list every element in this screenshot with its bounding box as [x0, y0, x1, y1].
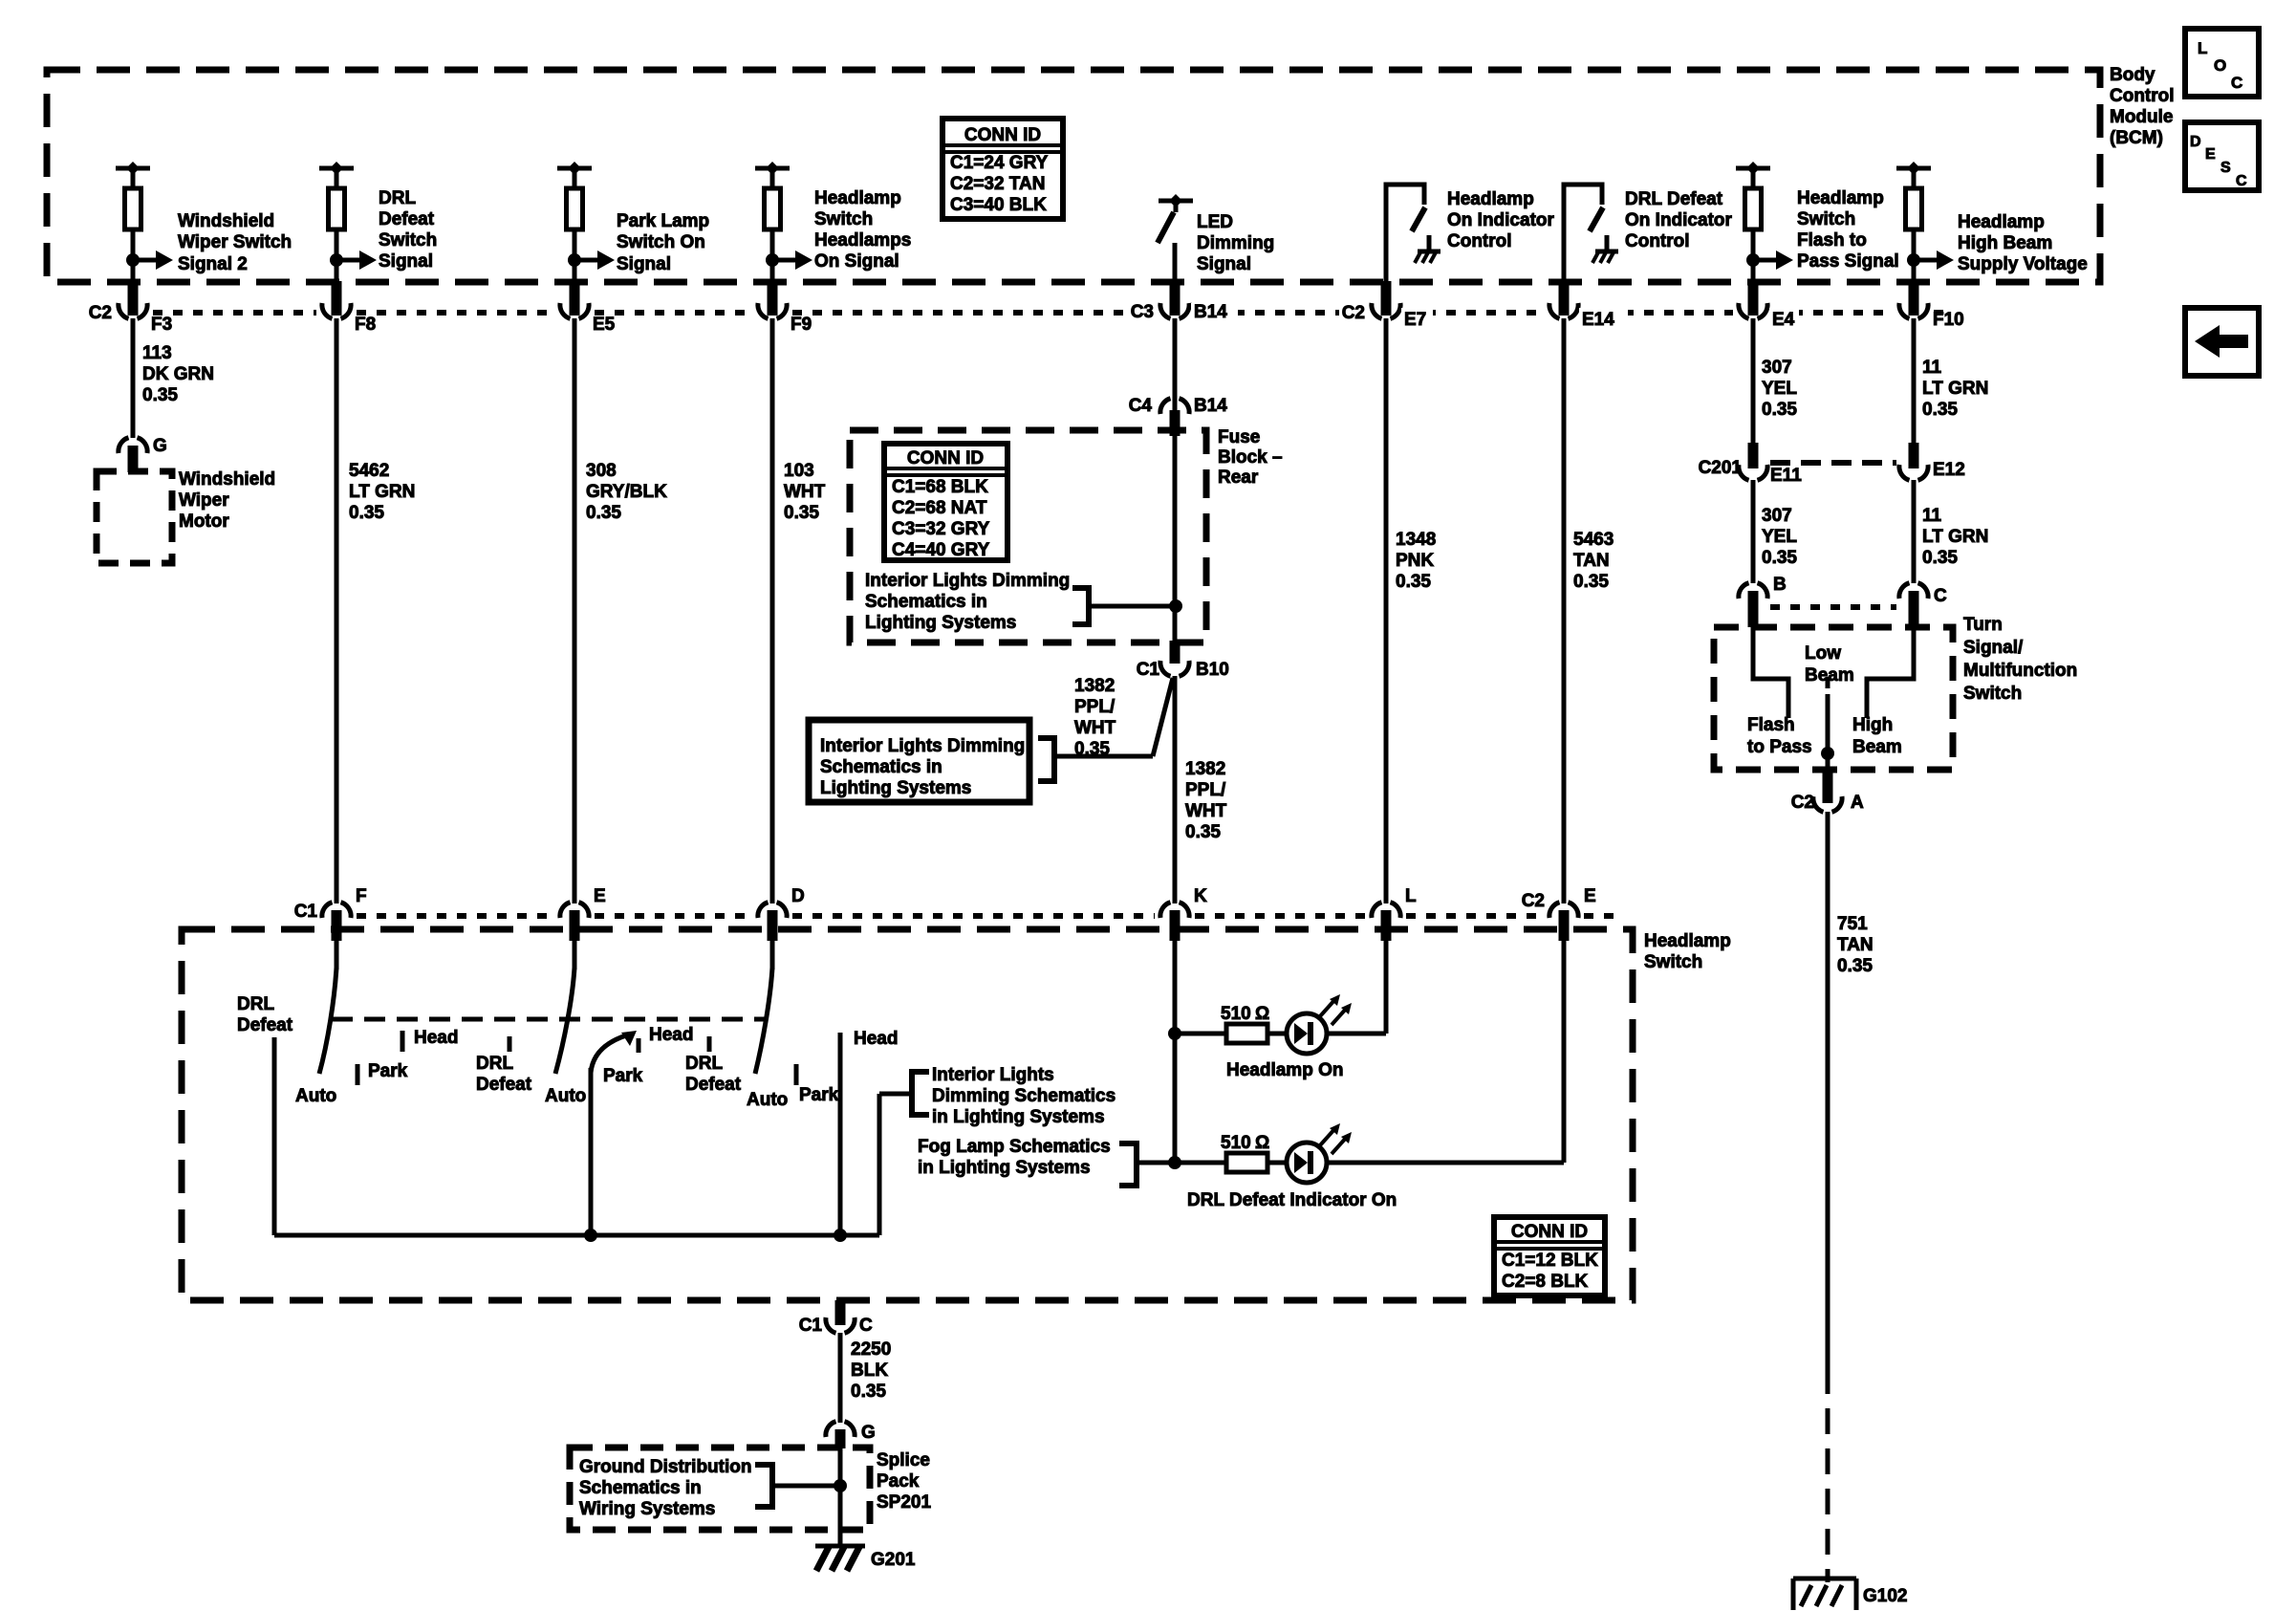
svg-text:TAN: TAN — [1837, 935, 1874, 955]
svg-text:Auto: Auto — [295, 1086, 336, 1106]
svg-text:F3: F3 — [151, 315, 172, 335]
connector pin E4 — [1739, 281, 1799, 330]
svg-text:E12: E12 — [1933, 460, 1965, 480]
low beam wiper — [1805, 643, 1854, 783]
resistor pull-up Park Lamp Switch On Signal — [557, 162, 592, 282]
wire 5463 TAN 0.35 — [1564, 318, 1614, 903]
svg-text:0.35: 0.35 — [142, 385, 178, 405]
Body Control Module (BCM) box — [47, 65, 2175, 282]
DRL defeat on indicator control driver — [1564, 185, 1733, 316]
connector pin G windshield wiper motor — [119, 436, 167, 472]
connector C3 pin B14 — [1128, 281, 1238, 322]
svg-text:E: E — [2205, 146, 2216, 163]
headlamp on indicator control driver — [1386, 185, 1555, 316]
wire 11 LT GRN 0.35 (lower) — [1914, 480, 1988, 583]
svg-text:Head: Head — [414, 1028, 458, 1048]
svg-text:E5: E5 — [593, 315, 616, 335]
svg-text:0.35: 0.35 — [1762, 548, 1797, 568]
svg-text:High Beam: High Beam — [1958, 233, 2052, 253]
signal arrow Park Lamp Switch On Signal — [568, 211, 709, 274]
wire 751 TAN 0.35 — [1828, 812, 1874, 1368]
svg-text:Switch: Switch — [379, 230, 437, 250]
svg-text:C201: C201 — [1699, 458, 1743, 478]
C201 connector dashed line — [1770, 460, 1896, 466]
svg-text:5462: 5462 — [349, 461, 389, 481]
resistor pull-up Headlamp High Beam Supply Voltage — [1896, 162, 1931, 282]
svg-text:Park: Park — [368, 1061, 408, 1081]
svg-text:Low: Low — [1805, 643, 1841, 664]
connector C2 pin F3 — [89, 281, 172, 335]
back-arrow navigation box — [2185, 308, 2259, 376]
DRL defeat position contact 3 — [685, 1036, 742, 1095]
svg-text:Multifunction: Multifunction — [1963, 661, 2077, 681]
svg-text:Auto: Auto — [545, 1086, 586, 1106]
svg-text:307: 307 — [1762, 358, 1792, 378]
svg-text:Wiper Switch: Wiper Switch — [178, 232, 292, 252]
switch blade 3 (auto position) — [747, 941, 788, 1110]
svg-text:LT GRN: LT GRN — [1922, 527, 1988, 547]
svg-text:CONN ID: CONN ID — [907, 448, 984, 468]
connector pin E5 — [560, 281, 616, 335]
svg-text:F9: F9 — [791, 315, 812, 335]
svg-text:0.35: 0.35 — [1396, 572, 1431, 592]
svg-text:Switch: Switch — [1797, 209, 1855, 229]
park position contact 1 — [357, 1061, 408, 1085]
ground distribution reference — [579, 1457, 840, 1519]
svg-text:G201: G201 — [871, 1550, 916, 1570]
wire 113 DK GRN 0.35 — [133, 318, 214, 438]
svg-text:Body: Body — [2110, 65, 2155, 85]
svg-text:Interior Lights Dimming: Interior Lights Dimming — [820, 736, 1025, 756]
svg-text:0.35: 0.35 — [851, 1382, 886, 1402]
svg-text:0.35: 0.35 — [1573, 572, 1609, 592]
connector C2 pin A — [1791, 771, 1864, 813]
svg-text:YEL: YEL — [1762, 379, 1797, 399]
svg-text:A: A — [1851, 793, 1864, 813]
DESC reference box — [2185, 122, 2259, 190]
svg-text:C1: C1 — [1137, 660, 1160, 680]
svg-text:Block –: Block – — [1218, 447, 1283, 468]
svg-text:0.35: 0.35 — [586, 503, 621, 523]
switch blade 1 (auto position) — [295, 941, 336, 1106]
svg-text:Defeat: Defeat — [685, 1075, 742, 1095]
svg-text:GRY/BLK: GRY/BLK — [586, 482, 667, 502]
svg-text:B10: B10 — [1196, 660, 1229, 680]
svg-text:Defeat: Defeat — [379, 209, 435, 229]
svg-text:Signal: Signal — [379, 251, 433, 272]
wire 103 WHT 0.35 — [772, 318, 826, 903]
interior lights dimming reference (headlamp switch) — [912, 1065, 1116, 1127]
svg-text:G: G — [153, 436, 167, 456]
svg-text:Wiper: Wiper — [179, 490, 229, 511]
svg-text:DRL Defeat: DRL Defeat — [1625, 189, 1723, 209]
svg-text:(BCM): (BCM) — [2110, 128, 2163, 148]
svg-text:C2=8 BLK: C2=8 BLK — [1502, 1272, 1589, 1292]
svg-text:C2: C2 — [1791, 793, 1814, 813]
connector C2 pin E headlamp switch — [1522, 886, 1596, 941]
svg-text:Headlamp: Headlamp — [814, 188, 901, 208]
svg-text:On Indicator: On Indicator — [1625, 210, 1733, 230]
svg-text:PNK: PNK — [1396, 551, 1434, 571]
connector pin E headlamp switch — [560, 886, 606, 941]
svg-text:Splice: Splice — [877, 1450, 930, 1470]
svg-text:C3=32 GRY: C3=32 GRY — [892, 519, 990, 539]
CONN ID table (BCM connectors) — [942, 119, 1063, 219]
wire K into indicator branches — [1168, 941, 1181, 1169]
svg-text:C: C — [2231, 74, 2242, 92]
svg-text:O: O — [2214, 56, 2226, 75]
wire 1382 PPL/WHT 0.35 to headlamp switch — [1175, 676, 1227, 903]
connector pin E14 — [1549, 281, 1628, 330]
resistor 510 ohm (DRL defeat indicator) — [1137, 1133, 1269, 1172]
svg-text:0.35: 0.35 — [1922, 400, 1958, 420]
svg-text:WHT: WHT — [1185, 801, 1227, 821]
connector pin G splice pack — [826, 1422, 876, 1448]
wire fuse block internal — [1089, 436, 1182, 642]
wire B14 to fuse block — [1173, 318, 1178, 411]
svg-text:C1=68 BLK: C1=68 BLK — [892, 477, 988, 497]
wire 11 LT GRN 0.35 (upper) — [1914, 318, 1988, 443]
wire to interior lights dimming reference — [879, 1094, 912, 1235]
connector pin F8 — [322, 281, 376, 335]
svg-text:E14: E14 — [1582, 310, 1614, 330]
DRL defeat position contact 2 — [476, 1036, 532, 1095]
wire LED dimming signal — [1173, 243, 1178, 282]
svg-text:308: 308 — [586, 461, 617, 481]
svg-text:C2=32 TAN: C2=32 TAN — [950, 174, 1045, 194]
svg-text:Schematics in: Schematics in — [579, 1478, 702, 1498]
svg-text:C: C — [859, 1316, 873, 1336]
svg-text:510: 510 — [1221, 1133, 1251, 1153]
wire through splice pack — [834, 1448, 847, 1546]
svg-text:Control: Control — [2110, 86, 2175, 106]
wire 2250 BLK 0.35 — [840, 1333, 891, 1423]
headlamp switch box — [182, 929, 1731, 1300]
svg-text:DRL: DRL — [237, 994, 274, 1014]
svg-text:On Indicator: On Indicator — [1447, 210, 1555, 230]
svg-text:11: 11 — [1922, 358, 1942, 378]
connector pin F9 — [758, 281, 812, 335]
svg-text:B14: B14 — [1194, 396, 1227, 416]
wire to G102 (off-page dashed) — [1826, 1368, 1830, 1582]
park head selector arrow switch 2 — [591, 1025, 693, 1086]
svg-text:DRL: DRL — [685, 1054, 723, 1074]
svg-text:Ω: Ω — [1255, 1004, 1269, 1024]
svg-text:K: K — [1194, 886, 1207, 906]
svg-text:Interior Lights: Interior Lights — [932, 1065, 1054, 1085]
resistor 510 ohm (headlamp on) — [1175, 1004, 1269, 1043]
svg-text:C3=40 BLK: C3=40 BLK — [950, 195, 1047, 215]
svg-text:Switch: Switch — [1644, 952, 1702, 972]
LED dimming signal switch driver — [1158, 194, 1274, 274]
svg-text:307: 307 — [1762, 506, 1792, 526]
splice pack SP201 box — [570, 1448, 931, 1530]
svg-text:1382: 1382 — [1074, 676, 1115, 696]
svg-text:Switch On: Switch On — [617, 232, 705, 252]
signal arrow Headlamp High Beam Supply Voltage — [1907, 212, 2088, 274]
svg-text:510: 510 — [1221, 1004, 1251, 1024]
svg-text:E: E — [594, 886, 606, 906]
svg-text:E11: E11 — [1770, 466, 1802, 486]
svg-text:C2: C2 — [89, 303, 112, 323]
svg-text:Beam: Beam — [1852, 737, 1902, 757]
connector pin L headlamp switch — [1372, 886, 1417, 941]
signal arrow Headlamp Switch Headlamps On Signal — [766, 188, 911, 272]
svg-text:WHT: WHT — [1074, 718, 1116, 738]
svg-text:PPL/: PPL/ — [1074, 697, 1116, 717]
turn signal / multifunction switch box — [1714, 615, 2077, 770]
svg-text:Head: Head — [854, 1029, 898, 1049]
connector pin D headlamp switch — [758, 886, 805, 941]
svg-text:C4: C4 — [1129, 396, 1153, 416]
signal arrow Windshield Wiper Switch Signal 2 — [126, 211, 292, 274]
svg-text:Lighting Systems: Lighting Systems — [865, 613, 1016, 633]
svg-text:1348: 1348 — [1396, 530, 1436, 550]
flash to pass contact — [1747, 627, 1812, 757]
svg-text:0.35: 0.35 — [1762, 400, 1797, 420]
wire 308 GRY/BLK 0.35 — [574, 318, 667, 903]
svg-text:F8: F8 — [355, 315, 376, 335]
svg-text:Windshield: Windshield — [178, 211, 274, 231]
svg-text:Headlamp: Headlamp — [1447, 189, 1534, 209]
svg-text:5463: 5463 — [1573, 530, 1614, 550]
svg-text:1382: 1382 — [1185, 759, 1225, 779]
svg-text:LT GRN: LT GRN — [1922, 379, 1988, 399]
svg-text:DRL: DRL — [476, 1054, 513, 1074]
svg-text:C2: C2 — [1522, 891, 1545, 911]
svg-text:L: L — [2198, 39, 2207, 57]
svg-text:F10: F10 — [1933, 310, 1964, 330]
svg-text:LT GRN: LT GRN — [349, 482, 415, 502]
park position contact 3 — [796, 1064, 839, 1105]
DRL Defeat output wire — [237, 994, 293, 1235]
svg-text:Head: Head — [649, 1025, 693, 1045]
head position contact 1 — [402, 1028, 458, 1052]
svg-text:DRL Defeat Indicator On: DRL Defeat Indicator On — [1187, 1190, 1397, 1210]
svg-text:Defeat: Defeat — [237, 1015, 293, 1035]
svg-text:F: F — [356, 886, 367, 906]
svg-text:C: C — [1934, 586, 1947, 606]
signal arrow DRL Defeat Switch Signal — [330, 188, 437, 272]
svg-text:Control: Control — [1447, 231, 1512, 251]
resistor pull-up Windshield Wiper Switch Signal 2 — [116, 162, 150, 282]
svg-text:Turn: Turn — [1963, 615, 2003, 635]
connector pin K headlamp switch — [1160, 886, 1207, 941]
svg-text:E7: E7 — [1404, 310, 1426, 330]
svg-text:Switch: Switch — [1963, 684, 2022, 704]
svg-text:Park Lamp: Park Lamp — [617, 211, 709, 231]
wire from park contact switch 2 to bus — [589, 1068, 594, 1235]
svg-text:B: B — [1773, 575, 1787, 595]
svg-text:Headlamp: Headlamp — [1958, 212, 2045, 232]
svg-text:Pack: Pack — [877, 1471, 920, 1491]
CONN ID table (headlamp switch) — [1494, 1217, 1605, 1295]
svg-text:in Lighting Systems: in Lighting Systems — [932, 1107, 1105, 1127]
connector C2 pin E7 — [1339, 281, 1433, 330]
connector pin B turn signal switch — [1739, 575, 1787, 627]
svg-text:Lighting Systems: Lighting Systems — [820, 778, 971, 798]
svg-text:Windshield: Windshield — [179, 469, 275, 490]
wire from dimming reference to B10 — [1054, 678, 1173, 756]
svg-text:Park: Park — [603, 1066, 643, 1086]
svg-text:103: 103 — [784, 461, 814, 481]
svg-text:Headlamps: Headlamps — [814, 230, 911, 250]
svg-text:Signal/: Signal/ — [1963, 638, 2024, 658]
svg-text:D: D — [2190, 134, 2201, 150]
svg-text:Module: Module — [2110, 107, 2174, 127]
svg-text:Switch: Switch — [814, 209, 873, 229]
connector C201 pin E11 — [1699, 443, 1803, 486]
LED indicator Headlamp On — [1226, 994, 1386, 1080]
ground G102 — [1793, 1578, 1907, 1610]
svg-text:Headlamp: Headlamp — [1644, 931, 1731, 951]
headlamp switch connector dotted line — [357, 913, 1617, 919]
svg-text:Wiring Systems: Wiring Systems — [579, 1499, 715, 1519]
LED indicator DRL Defeat Indicator On — [1187, 1123, 1564, 1210]
svg-text:G: G — [861, 1423, 876, 1443]
svg-text:Flash to: Flash to — [1797, 230, 1867, 250]
svg-text:C: C — [2236, 173, 2247, 189]
connector C4 pin B14 fuse block — [1129, 396, 1228, 436]
svg-text:C4=40 GRY: C4=40 GRY — [892, 540, 990, 560]
svg-text:Signal: Signal — [617, 254, 671, 274]
svg-text:Schematics in: Schematics in — [865, 592, 987, 612]
svg-text:LED: LED — [1197, 212, 1233, 232]
svg-text:C3: C3 — [1131, 302, 1154, 322]
wire 1348 PNK 0.35 — [1386, 318, 1436, 903]
svg-text:0.35: 0.35 — [1922, 548, 1958, 568]
switch blade 2 (auto position) — [545, 941, 586, 1106]
svg-text:PPL/: PPL/ — [1185, 780, 1226, 800]
svg-text:C2: C2 — [1342, 303, 1365, 323]
svg-text:751: 751 — [1837, 914, 1868, 934]
svg-text:Pass Signal: Pass Signal — [1797, 251, 1899, 272]
svg-text:Defeat: Defeat — [476, 1075, 532, 1095]
svg-text:0.35: 0.35 — [784, 503, 819, 523]
svg-text:YEL: YEL — [1762, 527, 1797, 547]
wire 5462 LT GRN 0.35 — [336, 318, 415, 903]
switch common bus wire — [274, 1229, 879, 1242]
wire 1382 PPL/WHT 0.35 (upper label) — [1074, 676, 1116, 759]
svg-text:Fog Lamp Schematics: Fog Lamp Schematics — [918, 1137, 1111, 1157]
wire 307 YEL 0.35 (lower) — [1753, 480, 1797, 583]
svg-text:Ω: Ω — [1255, 1133, 1269, 1153]
svg-text:0.35: 0.35 — [1837, 956, 1873, 976]
svg-text:0.35: 0.35 — [1185, 822, 1221, 842]
svg-text:Headlamp: Headlamp — [1797, 188, 1884, 208]
svg-text:Schematics in: Schematics in — [820, 757, 942, 777]
svg-text:Supply Voltage: Supply Voltage — [1958, 254, 2088, 274]
LOC reference box — [2185, 29, 2259, 97]
svg-text:CONN ID: CONN ID — [1511, 1222, 1588, 1242]
signal arrow Headlamp Switch Flash to Pass Signal — [1746, 188, 1899, 272]
svg-text:in Lighting Systems: in Lighting Systems — [918, 1158, 1091, 1178]
wire E to LED branch — [1562, 941, 1567, 1163]
svg-text:C2=68 NAT: C2=68 NAT — [892, 498, 987, 518]
fog lamp schematics reference — [918, 1137, 1137, 1186]
B-C connector dotted line — [1770, 604, 1896, 610]
svg-text:C1: C1 — [294, 902, 318, 922]
resistor pull-up DRL Defeat Switch Signal — [319, 162, 354, 282]
svg-text:C1: C1 — [799, 1316, 823, 1336]
svg-text:B14: B14 — [1194, 302, 1227, 322]
svg-text:Signal: Signal — [1197, 254, 1251, 274]
svg-text:113: 113 — [142, 343, 172, 363]
svg-text:Headlamp On: Headlamp On — [1226, 1060, 1343, 1080]
svg-text:Motor: Motor — [179, 512, 229, 532]
svg-text:Park: Park — [799, 1085, 839, 1105]
ground G201 — [815, 1545, 916, 1571]
resistor pull-up Headlamp Switch Flash to Pass Signal — [1736, 162, 1770, 282]
svg-text:Control: Control — [1625, 231, 1690, 251]
svg-text:On Signal: On Signal — [814, 251, 899, 272]
windshield wiper motor box — [97, 469, 275, 563]
svg-text:G102: G102 — [1863, 1586, 1907, 1606]
svg-text:C1=12 BLK: C1=12 BLK — [1502, 1251, 1598, 1271]
svg-text:E4: E4 — [1772, 310, 1795, 330]
svg-text:TAN: TAN — [1573, 551, 1610, 571]
switch linkage dashed line — [332, 1017, 765, 1022]
svg-text:E: E — [1584, 886, 1596, 906]
svg-text:to Pass: to Pass — [1747, 737, 1812, 757]
svg-text:Signal 2: Signal 2 — [178, 254, 248, 274]
svg-text:S: S — [2220, 160, 2231, 176]
svg-text:2250: 2250 — [851, 1339, 891, 1360]
svg-text:WHT: WHT — [784, 482, 826, 502]
high beam contact — [1852, 627, 1914, 757]
svg-text:Rear: Rear — [1218, 468, 1259, 488]
wire 307 YEL 0.35 (upper) — [1753, 318, 1797, 443]
svg-text:Ground Distribution: Ground Distribution — [579, 1457, 751, 1477]
interior lights dimming reference box (lighting systems) — [809, 720, 1054, 802]
svg-text:L: L — [1405, 886, 1417, 906]
svg-text:SP201: SP201 — [877, 1492, 931, 1513]
wire L to LED branch — [1384, 941, 1389, 1034]
CONN ID table (fuse block) — [884, 444, 1007, 560]
svg-text:DRL: DRL — [379, 188, 416, 208]
svg-text:BLK: BLK — [851, 1361, 888, 1381]
svg-text:Dimming Schematics: Dimming Schematics — [932, 1086, 1116, 1106]
connector C1 pin B10 — [1137, 641, 1229, 680]
connector pin F10 — [1899, 281, 1964, 330]
BCM connector face C2/C3 dotted line — [105, 310, 1943, 316]
connector C1 pin C — [799, 1300, 873, 1336]
resistor pull-up Headlamp Switch Headlamps On Signal — [755, 162, 790, 282]
svg-text:Auto: Auto — [747, 1090, 788, 1110]
svg-text:Flash: Flash — [1747, 715, 1795, 735]
connector pin E12 — [1899, 443, 1965, 480]
svg-text:C1=24 GRY: C1=24 GRY — [950, 153, 1049, 173]
svg-text:0.35: 0.35 — [349, 503, 384, 523]
svg-text:CONN ID: CONN ID — [964, 125, 1041, 145]
svg-text:Fuse: Fuse — [1218, 427, 1260, 447]
svg-text:11: 11 — [1922, 506, 1942, 526]
svg-text:High: High — [1852, 715, 1893, 735]
svg-text:Interior Lights Dimming: Interior Lights Dimming — [865, 571, 1070, 591]
svg-text:D: D — [791, 886, 805, 906]
connector C1 pin F headlamp switch — [294, 886, 367, 941]
head output wire — [840, 1029, 898, 1235]
svg-text:Dimming: Dimming — [1197, 233, 1274, 253]
svg-text:DK GRN: DK GRN — [142, 364, 214, 384]
interior lights dimming reference (fuse block) — [865, 571, 1089, 633]
Fuse Block - Rear box — [850, 427, 1283, 642]
connector pin C turn signal switch — [1899, 583, 1947, 627]
